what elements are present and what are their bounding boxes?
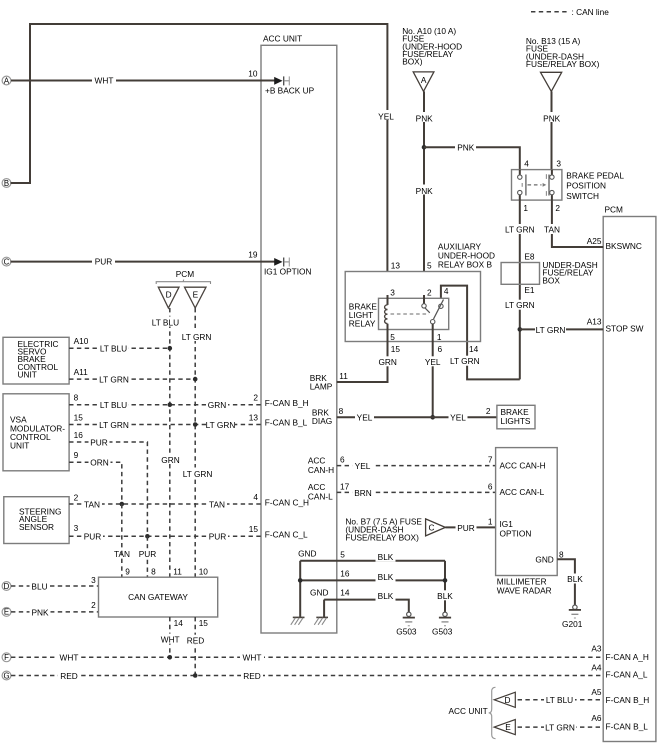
svg-text:RED: RED [187,636,205,646]
svg-text:GRN: GRN [161,455,179,465]
connector triangle D top [158,287,179,308]
wire BLK radar GND to G201 [557,559,585,605]
fuse B7 label [345,516,422,542]
svg-text:PCM: PCM [176,269,195,279]
pin 19 diode arrow IG1 OPTION [264,258,311,277]
svg-text:PUR: PUR [139,549,157,559]
chassis ground left [291,617,305,624]
svg-text:13: 13 [249,412,259,422]
wire GRN relay pin 15 to ACC pin 11 [337,342,398,383]
svg-text:PNK: PNK [457,142,475,152]
svg-text:GND: GND [535,554,553,564]
wire ACC internal ground vertical pin14 [323,600,325,618]
svg-text:1: 1 [523,203,528,213]
svg-text:3: 3 [74,523,79,533]
wire LT GRN dashed pin A11 [69,374,195,384]
svg-text:UNIT: UNIT [10,441,29,451]
junction PUR line [145,534,150,539]
svg-text:F: F [4,653,9,662]
svg-text:A: A [4,76,10,85]
svg-text:F-CAN B_H: F-CAN B_H [265,398,309,408]
fuse C triangle [426,519,446,536]
wire RED dashed gateway pin 15 [185,617,207,676]
wire YEL ACC pin 8 to brake lights [337,412,497,422]
svg-text:GRN: GRN [378,357,396,367]
wire ACC internal ground vertical pin5 [299,561,301,618]
svg-text:DIAG: DIAG [312,416,332,426]
chassis ground right [314,617,328,624]
wire BLK ACC pin 14 to G503 [324,591,409,612]
wire LT GRN switch pin 1 down [505,200,535,379]
junction row8 GRN line [168,402,173,407]
svg-text:BKSWNC: BKSWNC [606,241,642,251]
svg-text:B: B [4,179,9,188]
PCM bracket [156,282,210,284]
relay coil [385,305,388,324]
wire LT GRN jog to relay pin 14 [441,286,520,380]
svg-text:PUR: PUR [209,532,227,542]
connector triangle E bottom [494,720,515,735]
svg-text:WHT: WHT [95,76,114,86]
svg-text:WHT: WHT [60,653,79,663]
VSA modulator-control unit box [3,394,69,471]
electric servo brake control unit box [3,337,69,384]
svg-text:2: 2 [555,203,560,213]
svg-text:1: 1 [488,516,493,526]
svg-text:LT GRN: LT GRN [505,300,535,310]
svg-text:BLK: BLK [378,591,394,601]
ground G201 [562,605,583,629]
svg-text:C: C [429,523,435,533]
svg-text:CAN-H: CAN-H [308,465,334,475]
svg-text:16: 16 [74,430,84,440]
svg-text:GND: GND [298,548,316,558]
connector triangle D bottom [494,692,515,707]
svg-text:F-CAN C_H: F-CAN C_H [265,497,309,507]
svg-text:FUSE/RELAY BOX): FUSE/RELAY BOX) [345,532,419,542]
svg-text:LT GRN: LT GRN [183,469,213,479]
svg-text:F-CAN A_L: F-CAN A_L [606,669,648,679]
svg-text:4: 4 [524,158,529,168]
junction A11 LT GRN line [193,377,198,382]
svg-text:2: 2 [427,287,432,297]
svg-text:ORN: ORN [90,458,108,468]
wire LT GRN dashed E to PCM A6 [518,722,604,732]
fuse B13 triangle [541,72,562,91]
svg-text:9: 9 [74,450,79,460]
svg-text:F-CAN C_L: F-CAN C_L [265,530,308,540]
wire LT BLU dashed pin A10 [69,343,170,353]
wire ORN dashed VSA pin 9 [69,457,122,504]
svg-text:A3: A3 [591,643,602,653]
svg-text:ACC UNIT: ACC UNIT [263,34,302,44]
CAN bus PUR vertical to gateway pin 8 [122,504,158,577]
svg-text:BOX: BOX [542,275,560,285]
svg-text:5: 5 [390,332,395,342]
wire WHT from A to ACC pin 10 [11,76,277,86]
wire LT GRN to PCM A13 [520,324,603,334]
svg-text:RELAY: RELAY [349,318,376,328]
svg-text:YEL: YEL [355,461,371,471]
svg-text:A4: A4 [591,662,602,672]
svg-text:A13: A13 [587,317,602,327]
svg-text:F-CAN A_H: F-CAN A_H [606,652,649,662]
ACC UNIT bracket bottom [449,687,496,738]
node A [2,76,11,85]
node E [2,608,11,617]
svg-text:6: 6 [438,344,443,354]
svg-text:8: 8 [74,393,79,403]
wire TAN switch pin 2 to PCM A25 [542,200,604,247]
ground G503 left [396,612,417,637]
svg-text:POSITION: POSITION [566,181,606,191]
svg-text:A10: A10 [74,336,89,346]
svg-text:8: 8 [339,406,344,416]
relay pin 2 lever stub [425,308,430,313]
junction WHT F line [168,655,173,660]
wire PNK from fuse A10 [414,91,434,271]
junction RED G line [193,673,198,678]
svg-text:D: D [166,289,172,299]
svg-text:4: 4 [253,492,258,502]
relay pin 4 contact [439,304,443,308]
svg-text:ACC: ACC [308,455,326,465]
svg-text:8: 8 [559,550,564,560]
svg-text:1: 1 [437,332,442,342]
svg-text:F-CAN B_H: F-CAN B_H [606,695,650,705]
svg-text:ACC CAN-H: ACC CAN-H [500,460,546,470]
svg-text:RED: RED [243,671,261,681]
svg-text:PUR: PUR [84,532,102,542]
brake pedal position switch S1 [512,170,562,201]
svg-text:TAN: TAN [84,499,100,509]
fuse B13 label [526,36,600,69]
svg-text:10: 10 [199,567,209,577]
svg-text:G: G [3,671,9,680]
wire TAN dashed steering pin 2 to ACC pin 4 [69,499,261,509]
junction LT GRN stop sw [518,327,523,332]
wire PUR dashed steering pin 3 to ACC pin 15 [69,531,261,541]
svg-text:TAN: TAN [209,499,225,509]
svg-text:14: 14 [174,618,184,628]
junction row15 LT GRN line [193,422,198,427]
wire LT BLU dashed VSA pin 8 to ACC pin 2 [69,400,261,410]
svg-text:16: 16 [340,569,350,579]
wire PUR fuse C to radar pin 1 [445,522,495,532]
svg-text:5: 5 [427,260,432,270]
ACC CAN-L label [308,482,333,502]
svg-text:PNK: PNK [416,186,434,196]
under-dash fuse relay box E8 [501,251,598,295]
svg-text:BLK: BLK [378,552,394,562]
svg-text:BRAKE PEDAL: BRAKE PEDAL [566,170,624,180]
ACC CAN-H label [308,455,334,475]
svg-text:10: 10 [248,69,258,79]
auxiliary under-hood relay box B outline [345,272,480,342]
svg-text:17: 17 [340,481,350,491]
node B [2,179,11,188]
wire BLK ACC pin 5 [300,552,445,562]
svg-text:G503: G503 [432,627,453,637]
junction A10 GRN line [168,346,173,351]
wire LT GRN dashed VSA pin 15 to ACC pin 13 [69,420,261,430]
svg-text:YEL: YEL [357,413,373,423]
svg-text:FUSE/RELAY BOX): FUSE/RELAY BOX) [526,59,600,69]
millimeter wave radar box [496,448,558,596]
relay pin 2 contact wire [423,295,425,304]
svg-text:G201: G201 [562,619,583,629]
svg-text:11: 11 [173,567,182,577]
fuse A10 label [402,26,462,67]
CAN bus TAN vertical to gateway pin 9 [112,548,132,559]
svg-text:GND: GND [310,587,328,597]
svg-text:15: 15 [249,524,259,534]
svg-text:STOP SW: STOP SW [606,324,644,334]
svg-text:: CAN line: : CAN line [572,7,610,17]
svg-text:BOX): BOX) [402,57,423,67]
svg-text:8: 8 [151,567,156,577]
PCM box [603,205,656,742]
relay pin 2 contact [422,304,426,308]
svg-text:PCM: PCM [605,205,624,215]
wire BLK junction vertical to G503 right [435,561,455,612]
connector triangle E top [185,287,207,308]
ground G503 right [432,612,453,637]
svg-text:A11: A11 [74,367,89,377]
brake light relay K1 box [379,298,449,329]
svg-text:6: 6 [340,455,345,465]
svg-text:4: 4 [444,286,449,296]
svg-text:LT GRN: LT GRN [206,420,236,430]
relay coil wire top [387,295,389,305]
svg-text:YEL: YEL [425,357,441,367]
svg-text:11: 11 [339,371,348,381]
svg-text:A6: A6 [591,713,602,723]
svg-text:PNK: PNK [416,113,434,123]
wire PNK branch to switch pin 4 [424,142,520,170]
brake pedal position switch label [566,170,624,201]
svg-text:15: 15 [391,344,401,354]
relay pin 1 contact [431,320,435,324]
node C [2,257,11,266]
wire top horizontal B net [29,23,387,25]
svg-text:LT GRN: LT GRN [182,332,212,342]
svg-text:F-CAN B_L: F-CAN B_L [606,721,649,731]
fuse A10 triangle [413,72,434,92]
svg-text:LT GRN: LT GRN [536,325,566,335]
junction BLK [443,578,448,583]
svg-text:E: E [505,722,511,732]
wire WHT dashed F to PCM A3 [11,652,603,662]
svg-text:PUR: PUR [457,523,475,533]
wire B vertical riser [29,24,31,184]
wire BRN dashed ACC pin 17 to radar pin 6 [337,487,496,497]
wire RED dashed G to PCM A4 [11,671,603,681]
node G [2,671,11,680]
svg-text:BLK: BLK [567,574,583,584]
svg-text:PNK: PNK [31,607,49,617]
svg-text:19: 19 [248,250,258,260]
svg-text:3: 3 [556,158,561,168]
svg-text:2: 2 [74,492,79,502]
svg-text:LT BLU: LT BLU [546,695,573,705]
wire YEL relay pin 1 down [423,324,443,417]
svg-text:WAVE RADAR: WAVE RADAR [497,586,552,596]
node D [2,582,11,591]
svg-text:UNIT: UNIT [18,369,37,379]
ACC UNIT U1 box [261,34,337,634]
ACC BRK LAMP label [310,373,333,392]
svg-text:D: D [505,695,511,705]
svg-text:PUR: PUR [95,257,113,267]
wire B stub [11,182,31,184]
relay coil wire bottom [387,324,389,342]
wire WHT dashed gateway pin 14 [158,617,182,657]
svg-text:BLK: BLK [378,572,394,582]
relay coil link dashed [391,313,430,315]
junction PNK branch [422,145,427,150]
svg-text:LAMP: LAMP [310,381,333,391]
svg-text:G503: G503 [396,627,417,637]
svg-text:14: 14 [340,588,350,598]
svg-text:CAN-L: CAN-L [308,492,333,502]
svg-text:WHT: WHT [161,635,180,645]
svg-text:F-CAN B_L: F-CAN B_L [265,418,308,428]
svg-text:C: C [4,257,10,266]
svg-text:OPTION: OPTION [500,529,532,539]
legend CAN line [531,7,609,17]
wire BLU dashed D to gateway pin 3 [11,581,99,591]
brake light relay K1 label [349,301,378,328]
wire BLK ACC pin 16 [300,572,445,583]
svg-text:ACC UNIT: ACC UNIT [449,706,488,716]
svg-text:LT BLU: LT BLU [100,400,127,410]
junction YEL [430,415,435,420]
svg-text:BRN: BRN [354,488,372,498]
wire PNK from fuse B13 to switch pin 3 [542,91,562,169]
svg-text:6: 6 [488,481,493,491]
wire YEL dashed ACC pin 6 to radar pin 7 [337,461,496,471]
svg-text:TAN: TAN [544,224,560,234]
svg-text:9: 9 [125,567,130,577]
svg-text:E: E [193,289,199,299]
svg-text:5: 5 [340,549,345,559]
svg-text:2: 2 [486,406,491,416]
wire PUR dashed VSA pin 16 [69,437,147,536]
svg-text:ACC: ACC [308,482,326,492]
svg-text:LT GRN: LT GRN [545,723,575,733]
svg-text:WHT: WHT [243,653,262,663]
svg-text:GRN: GRN [208,400,226,410]
wire PUR from C to ACC pin 19 [11,257,278,267]
svg-text:E8: E8 [524,251,535,261]
svg-text:BLU: BLU [31,581,47,591]
wire YEL drop to relay pin 13 [378,23,397,272]
svg-text:CAN GATEWAY: CAN GATEWAY [128,592,188,602]
svg-text:LT BLU: LT BLU [152,317,179,327]
CAN bus LT GRN vertical E line [182,308,213,577]
svg-text:3: 3 [91,575,96,585]
svg-text:YEL: YEL [450,413,466,423]
relay lever [434,300,444,320]
svg-text:15: 15 [74,413,84,423]
svg-text:LT GRN: LT GRN [505,224,535,234]
svg-text:LT GRN: LT GRN [99,420,129,430]
svg-text:YEL: YEL [378,111,394,121]
svg-text:PUR: PUR [90,437,108,447]
svg-text:RELAY BOX B: RELAY BOX B [438,260,493,270]
CAN gateway box [99,577,218,617]
svg-text:A5: A5 [591,687,602,697]
svg-text:PNK: PNK [543,113,561,123]
brake lights box [497,405,535,429]
svg-text:2: 2 [91,600,96,610]
svg-text:D: D [4,582,10,591]
svg-text:15: 15 [199,618,209,628]
svg-text:BLK: BLK [437,591,453,601]
wire LT BLU dashed D to PCM A5 [518,695,604,705]
svg-text:SENSOR: SENSOR [19,522,54,532]
pin 10 diode arrow +B BACK UP [265,76,315,95]
auxiliary under-hood relay box B label [438,241,495,269]
svg-text:13: 13 [391,260,401,270]
svg-text:2: 2 [253,393,258,403]
svg-text:RED: RED [60,671,78,681]
svg-text:LT GRN: LT GRN [450,356,480,366]
junction TAN line [120,502,125,507]
svg-text:A: A [421,75,427,85]
svg-text:LIGHTS: LIGHTS [501,416,531,426]
wire PNK dashed E to gateway pin 2 [11,607,99,617]
node F [2,653,11,662]
junction ACC ground [298,578,303,583]
ACC BRK DIAG label [312,408,332,427]
svg-text:E: E [4,608,9,617]
svg-text:LT GRN: LT GRN [99,375,129,385]
svg-text:+B BACK UP: +B BACK UP [265,85,315,95]
svg-text:IG1 OPTION: IG1 OPTION [264,266,311,276]
steering angle sensor box [4,497,69,544]
svg-text:ACC CAN-L: ACC CAN-L [500,487,545,497]
svg-text:14: 14 [469,344,479,354]
svg-text:E1: E1 [524,285,535,295]
svg-text:A25: A25 [587,236,602,246]
svg-text:SWITCH: SWITCH [566,191,599,201]
svg-text:LT BLU: LT BLU [100,344,127,354]
svg-text:3: 3 [390,287,395,297]
svg-text:7: 7 [488,455,493,465]
CAN bus GRN vertical D line [152,308,183,577]
